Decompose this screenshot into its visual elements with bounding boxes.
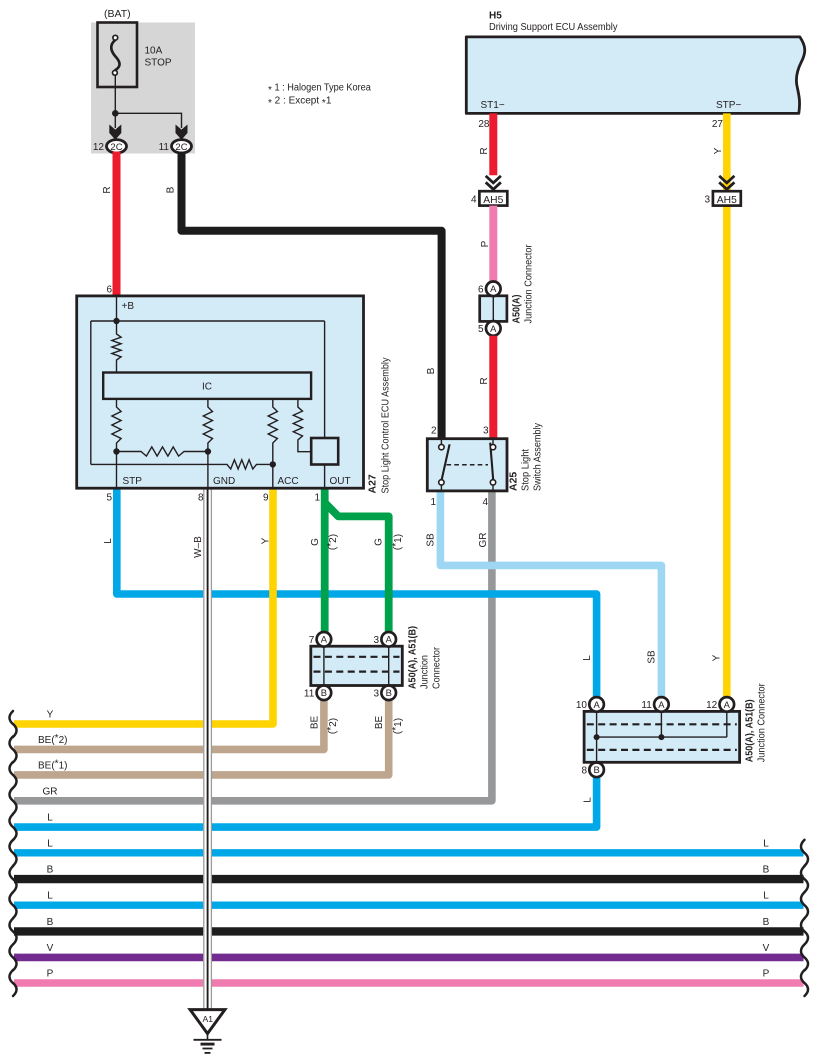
svg-text:(*2): (*2)	[325, 718, 338, 734]
svg-text:+B: +B	[122, 301, 135, 312]
junction connector A50(A)	[480, 296, 507, 322]
svg-text:(BAT): (BAT)	[104, 8, 131, 20]
wire fuse to node	[114, 76, 116, 114]
svg-text:BE(*1): BE(*1)	[38, 758, 67, 771]
internal STP lead	[116, 452, 118, 489]
svg-text:10A: 10A	[145, 46, 163, 57]
svg-text:B: B	[763, 917, 770, 928]
relay square	[311, 438, 338, 465]
svg-text:L: L	[763, 891, 769, 902]
wire GR stop light switch pin 4 to bus	[14, 490, 492, 801]
svg-text:2: 2	[431, 425, 437, 436]
wire P bus full width	[14, 979, 804, 987]
wire W-B ECU GND pin 8 to ground	[203, 488, 212, 1010]
wire L junction pin 8B to bus	[14, 775, 597, 827]
svg-text:H5: H5	[489, 10, 502, 21]
ECU H5 Driving Support ECU Assembly	[466, 37, 804, 114]
svg-text:A: A	[724, 699, 731, 710]
svg-text:P: P	[480, 240, 491, 247]
connector 2C pin 12	[93, 140, 127, 153]
connector arrow into AH5 pin 4	[486, 176, 501, 191]
svg-text:L: L	[47, 838, 53, 849]
svg-text:Y: Y	[713, 147, 724, 154]
svg-text:A: A	[321, 634, 328, 645]
internal GND lead	[207, 452, 209, 489]
svg-text:GR: GR	[478, 533, 489, 548]
svg-text:A: A	[386, 634, 393, 645]
wire G branch (*1) OUT to junction pin 3A	[326, 504, 389, 634]
node +B dot	[113, 318, 119, 324]
internal rail right branch	[324, 321, 326, 438]
svg-text:A: A	[490, 283, 497, 294]
wire L ECU STP pin 5 to junction pin 10	[117, 488, 597, 699]
svg-text:2C: 2C	[110, 142, 122, 153]
svg-text:A: A	[593, 699, 600, 710]
svg-text:11: 11	[641, 700, 652, 711]
svg-text:B: B	[47, 917, 54, 928]
fuse block background	[91, 23, 195, 154]
wire R fuse to ECU A27 pin 6	[113, 152, 121, 298]
resistor R-top	[112, 321, 121, 373]
pin 12 (A)	[706, 697, 734, 712]
wire continuation mark	[9, 918, 16, 944]
svg-text:V: V	[763, 943, 770, 954]
pin 11 (A)	[641, 697, 668, 712]
svg-text:B: B	[166, 186, 177, 193]
node dots	[113, 448, 119, 454]
svg-text:Y: Y	[261, 537, 272, 544]
resistor horizontal rail-ACC	[91, 460, 273, 469]
svg-text:27: 27	[712, 119, 724, 130]
svg-text:STOP: STOP	[145, 58, 172, 69]
wire continuation mark	[9, 840, 16, 866]
wire continuation mark right	[801, 840, 808, 866]
svg-text:A1: A1	[203, 1014, 214, 1024]
wire R from ST1- pin 28	[489, 113, 497, 175]
svg-text:12: 12	[706, 700, 718, 711]
svg-text:9: 9	[263, 493, 269, 504]
internal ACC lead	[272, 464, 274, 488]
wire continuation mark	[9, 892, 16, 918]
connector AH5 (3)	[704, 191, 740, 206]
svg-text:6: 6	[106, 284, 112, 295]
svg-text:P: P	[763, 969, 770, 980]
ground A1	[190, 1010, 225, 1053]
svg-text:L: L	[763, 838, 769, 849]
arrow into 2C pin 12	[109, 125, 121, 140]
wire continuation mark	[9, 944, 16, 970]
wire continuation mark	[9, 788, 16, 814]
svg-text:BE: BE	[374, 716, 385, 730]
svg-text:B: B	[763, 865, 770, 876]
svg-text:Stop Light: Stop Light	[521, 449, 532, 491]
svg-text:3: 3	[483, 425, 489, 436]
pin 6 (A)	[478, 282, 501, 297]
switch contacts right	[490, 443, 495, 485]
svg-text:3: 3	[374, 635, 380, 646]
svg-text:A27: A27	[367, 474, 379, 493]
wire G (*2) OUT to junction pin 7A	[321, 488, 329, 633]
svg-text:A: A	[490, 323, 497, 334]
wire continuation mark	[9, 814, 16, 840]
svg-text:L: L	[47, 891, 53, 902]
svg-text:SB: SB	[426, 533, 437, 547]
internal rail left branch	[90, 321, 92, 464]
svg-text:R: R	[479, 147, 490, 154]
svg-text:L: L	[582, 797, 593, 803]
svg-text:AH5: AH5	[717, 195, 737, 206]
svg-text:A50(A): A50(A)	[512, 295, 523, 324]
svg-text:SB: SB	[647, 650, 658, 664]
wire B fuse to stop light switch pin 2	[182, 152, 442, 441]
svg-text:A25: A25	[508, 472, 520, 491]
junction connector A50(A),A51(B) middle	[311, 646, 403, 685]
wire continuation mark right	[801, 918, 808, 944]
svg-text:V: V	[47, 943, 54, 954]
svg-text:IC: IC	[202, 382, 212, 393]
svg-text:GND: GND	[213, 476, 235, 487]
internal OUT lead	[324, 465, 326, 489]
pin 5 (A)	[478, 321, 501, 336]
svg-text:Junction Connector: Junction Connector	[757, 683, 768, 763]
wire SB stop light switch pin 1 to junction pin 11	[440, 490, 661, 699]
wire L bus full width	[14, 902, 804, 909]
connector AH5 (4)	[471, 191, 507, 206]
resistor on ACC leg	[268, 399, 277, 465]
svg-text:G: G	[374, 538, 385, 546]
wire Y ECU ACC pin 9 to bus	[14, 488, 273, 724]
svg-text:1: 1	[314, 493, 320, 504]
svg-text:Y: Y	[712, 654, 723, 661]
svg-text:A50(A), A51(B): A50(A), A51(B)	[745, 699, 756, 762]
wire continuation mark	[9, 736, 16, 762]
wire node to pin 12	[114, 113, 116, 128]
svg-text:GR: GR	[43, 786, 58, 797]
resistor on GND leg	[203, 399, 212, 452]
svg-text:Driving Support ECU Assembly: Driving Support ECU Assembly	[489, 22, 618, 33]
svg-text:Y: Y	[47, 710, 54, 721]
wire continuation mark right	[801, 944, 808, 970]
svg-text:B: B	[47, 865, 54, 876]
svg-text:R: R	[102, 186, 113, 193]
svg-text:L: L	[103, 538, 114, 544]
wire continuation mark	[9, 970, 16, 996]
wire continuation mark	[9, 711, 16, 737]
pin 3 (B)	[374, 686, 396, 701]
svg-text:5: 5	[478, 324, 484, 335]
connector 2C pin 11	[159, 140, 192, 153]
wire R junction 5A to stop light switch pin 3	[489, 336, 497, 440]
svg-text:(*1): (*1)	[391, 534, 404, 550]
svg-text:Junction: Junction	[420, 655, 431, 689]
svg-text:ST1−: ST1−	[481, 100, 505, 111]
svg-text:R: R	[479, 377, 490, 384]
svg-text:12: 12	[93, 142, 105, 153]
internal rail top	[91, 320, 325, 322]
svg-text:B: B	[426, 367, 437, 374]
switch A25 Stop Light Switch Assembly	[427, 439, 507, 491]
svg-text:P: P	[47, 969, 54, 980]
pin 10 (A)	[576, 697, 604, 712]
svg-text:OUT: OUT	[330, 476, 351, 487]
svg-text:4: 4	[482, 497, 488, 508]
svg-text:BE(*2): BE(*2)	[38, 733, 67, 746]
svg-text:G: G	[310, 538, 321, 546]
svg-text:1: 1	[430, 497, 436, 508]
fuse 10A STOP	[98, 23, 138, 88]
junction connector A50(A),A51(B) right	[584, 711, 740, 762]
svg-text:3: 3	[704, 195, 710, 206]
svg-text:W–B: W–B	[193, 536, 204, 558]
wire continuation mark right	[801, 892, 808, 918]
connector arrow into AH5 pin 3	[719, 176, 734, 191]
svg-text:A50(A), A51(B): A50(A), A51(B)	[408, 626, 419, 689]
pin 8 (B)	[581, 763, 603, 778]
pin 7 (A)	[309, 632, 331, 647]
wire continuation mark right	[801, 866, 808, 892]
resistor on OUT leg	[293, 399, 311, 452]
svg-text:Connector: Connector	[432, 646, 443, 689]
svg-text:A: A	[658, 699, 665, 710]
wire continuation mark	[9, 762, 16, 788]
IC block	[103, 373, 311, 399]
svg-text:AH5: AH5	[483, 195, 503, 206]
svg-text:L: L	[47, 813, 53, 824]
svg-text:3: 3	[374, 688, 380, 699]
svg-text:8: 8	[581, 765, 587, 776]
svg-text:B: B	[593, 764, 599, 775]
svg-text:8: 8	[198, 493, 204, 504]
wire continuation mark	[9, 866, 16, 892]
pin 3 (A)	[374, 632, 396, 647]
svg-text:ACC: ACC	[278, 476, 299, 487]
svg-text:(*2): (*2)	[325, 534, 338, 550]
svg-text:Switch Assembly: Switch Assembly	[533, 423, 544, 491]
wire B bus full width	[14, 875, 804, 883]
svg-text:Junction Connector: Junction Connector	[524, 244, 535, 324]
svg-text:4: 4	[471, 195, 477, 206]
internal +B lead	[116, 296, 118, 321]
svg-text:STP−: STP−	[716, 100, 741, 111]
wire BE (*2) junction 11B to bus	[14, 700, 324, 750]
resistor on STP leg	[112, 399, 121, 452]
svg-text:10: 10	[576, 700, 588, 711]
wire B bus full width	[14, 927, 804, 935]
wire Y from STP- pin 27 to junction pin 12	[723, 113, 731, 698]
svg-text:(*1): (*1)	[391, 718, 404, 734]
svg-text:11: 11	[159, 142, 170, 153]
wire node to pin 11 branch	[115, 113, 181, 128]
pin 11 (B)	[304, 686, 331, 701]
svg-text:B: B	[386, 687, 392, 698]
resistor horizontal STP-GND	[117, 447, 208, 456]
switch contacts left	[439, 444, 450, 485]
wire P AH5 to junction A50(A) pin 6	[489, 206, 497, 283]
svg-text:B: B	[321, 687, 327, 698]
ECU A27 Stop Light Control ECU Assembly	[77, 296, 364, 488]
svg-text:STP: STP	[123, 476, 143, 487]
switch link dashed	[447, 464, 489, 466]
arrow into 2C pin 11	[176, 125, 188, 140]
svg-text:BE: BE	[310, 716, 321, 730]
node junction dot	[112, 110, 119, 117]
wire continuation mark right	[801, 970, 808, 996]
svg-text:11: 11	[304, 688, 315, 699]
svg-text:Stop Light Control ECU Assembl: Stop Light Control ECU Assembly	[381, 358, 392, 494]
svg-text:7: 7	[309, 635, 315, 646]
wire L bus full width	[14, 849, 804, 856]
svg-text:5: 5	[106, 493, 112, 504]
svg-text:L: L	[582, 655, 593, 661]
wire BE (*1) junction 3B to bus	[14, 700, 389, 775]
svg-text:2C: 2C	[175, 142, 187, 153]
svg-text:28: 28	[478, 119, 490, 130]
wire V bus full width	[14, 954, 804, 962]
svg-text:6: 6	[478, 284, 484, 295]
switch stubs	[441, 440, 493, 490]
